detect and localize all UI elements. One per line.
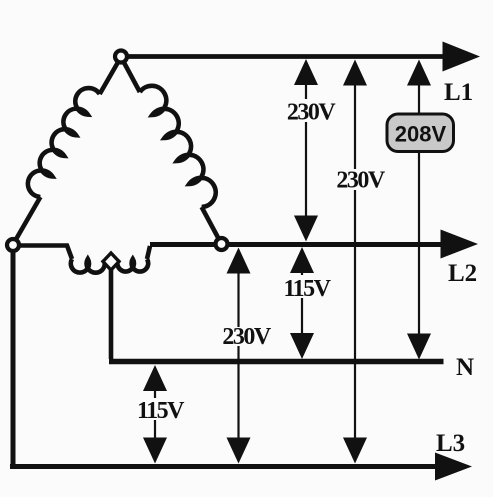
svg-text:230V: 230V xyxy=(222,324,272,350)
svg-text:N: N xyxy=(456,354,474,381)
svg-text:230V: 230V xyxy=(287,100,337,126)
svg-text:230V: 230V xyxy=(336,168,386,194)
svg-text:L2: L2 xyxy=(448,260,477,287)
svg-text:115V: 115V xyxy=(283,276,331,302)
svg-text:L3: L3 xyxy=(436,430,465,457)
svg-text:L1: L1 xyxy=(444,79,473,106)
svg-text:115V: 115V xyxy=(137,398,185,424)
svg-text:208V: 208V xyxy=(395,122,447,147)
